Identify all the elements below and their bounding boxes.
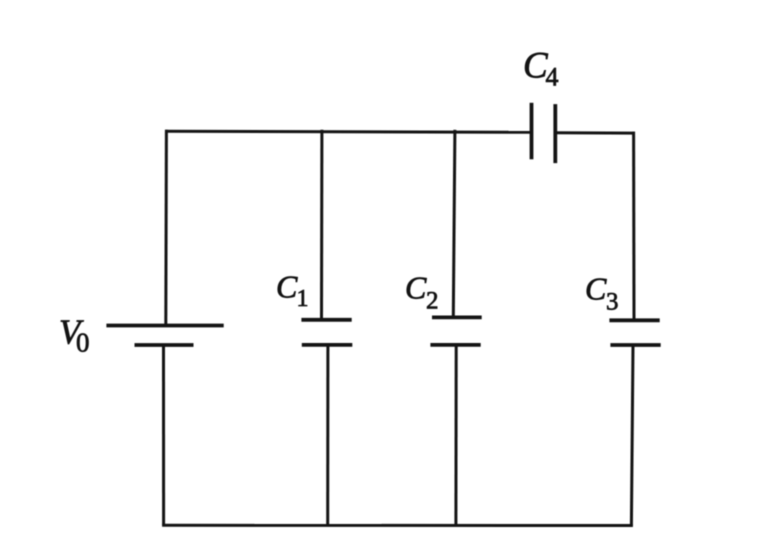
capacitor C1 bottom plate bbox=[302, 343, 353, 347]
capacitor C1 top plate bbox=[301, 318, 351, 322]
wire C1 branch lower bbox=[326, 345, 329, 525]
svg-text:C: C bbox=[276, 269, 298, 305]
svg-text:1: 1 bbox=[297, 286, 309, 312]
svg-text:C: C bbox=[405, 270, 427, 306]
wire top rail left segment bbox=[165, 131, 532, 132]
wire left vertical upper bbox=[164, 130, 168, 326]
wire C1 branch upper bbox=[320, 130, 323, 320]
capacitor C2 top plate bbox=[432, 315, 482, 319]
wire C2 branch upper bbox=[453, 130, 455, 318]
svg-text:4: 4 bbox=[546, 62, 559, 91]
wire right vertical upper bbox=[632, 132, 635, 321]
svg-text:2: 2 bbox=[426, 288, 439, 315]
capacitor C2 bottom plate bbox=[430, 343, 480, 347]
wire top rail right segment bbox=[555, 131, 635, 134]
label V0 bbox=[59, 312, 90, 357]
svg-text:C: C bbox=[585, 271, 607, 307]
wire left vertical lower bbox=[162, 345, 165, 525]
capacitor C4 right plate bbox=[553, 104, 557, 163]
svg-text:0: 0 bbox=[76, 327, 90, 357]
wire right vertical lower bbox=[631, 345, 633, 525]
svg-text:3: 3 bbox=[606, 288, 619, 315]
label C3 bbox=[585, 271, 619, 316]
capacitor C4 left plate bbox=[530, 103, 534, 160]
label C1 bbox=[276, 269, 309, 312]
capacitor C3 bottom plate bbox=[610, 343, 660, 347]
capacitor C3 top plate bbox=[609, 318, 659, 322]
label C4 bbox=[523, 46, 559, 92]
wire C2 branch lower bbox=[454, 345, 457, 525]
battery V0 long plate bbox=[106, 324, 223, 328]
label C2 bbox=[405, 270, 439, 315]
wire bottom rail bbox=[162, 524, 633, 527]
battery V0 short plate bbox=[135, 343, 194, 347]
